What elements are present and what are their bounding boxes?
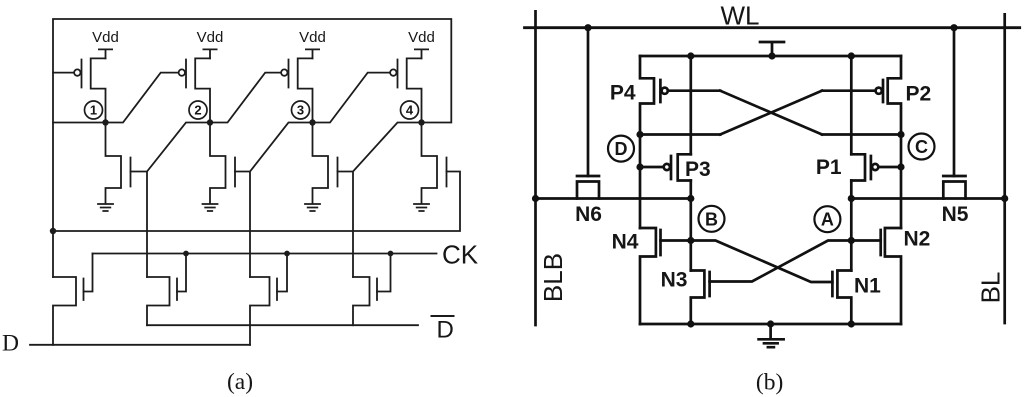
transistor NMOS stage 1 <box>106 123 131 204</box>
net BLB wire <box>534 11 537 325</box>
node C wire <box>822 133 901 136</box>
svg-text:N2: N2 <box>904 228 931 251</box>
junction dot gnd stub <box>767 320 774 327</box>
wire inner-left vertical (Vdd to P3 source) <box>689 56 692 154</box>
wire node 2 to gate of PMOS3 (diagonal) <box>210 73 281 123</box>
svg-text:N6: N6 <box>575 203 602 226</box>
svg-text:P1: P1 <box>816 156 842 179</box>
junction dot BL/access <box>1001 195 1008 202</box>
node 1 junction dot <box>102 119 108 125</box>
transistor pass NMOS T1 (clocked) <box>53 277 84 345</box>
svg-text:N5: N5 <box>942 203 969 226</box>
transistor N3 <box>691 271 710 325</box>
node 2 circled label <box>189 101 207 119</box>
node 4 circled label <box>401 101 419 119</box>
transistor pass NMOS T3 (clocked) <box>250 277 277 345</box>
svg-text:WL: WL <box>721 1 760 31</box>
junction dot access/inner-right <box>848 195 855 202</box>
junction dot Vdd stub <box>768 52 775 59</box>
svg-text:D: D <box>437 317 454 344</box>
net CK wire <box>93 253 437 255</box>
wire gate of N4 to node B <box>661 239 691 242</box>
junction dot Vdd/inner-left <box>687 52 694 59</box>
node D circled label <box>608 136 634 162</box>
wire cross: node B to gate of N1 <box>691 241 833 283</box>
power Vdd symbol stage 2 <box>203 49 216 58</box>
wire outer-left vertical (P3 gate tap to N4) <box>639 167 642 228</box>
wire node 3 to gate of PMOS4 (diagonal) <box>313 73 391 123</box>
wire cross: node A to gate of N3 <box>710 241 852 282</box>
transistor NMOS stage 4 <box>422 123 447 204</box>
transistor NMOS stage 3 <box>313 123 338 204</box>
transistor PMOS stage 3 <box>289 58 313 122</box>
wire gate of NMOS2 to node 3 (diagonal) and down to pass transistor 3 <box>235 123 313 278</box>
junction dot gnd/inner-left <box>687 320 694 327</box>
ground stage 1 <box>98 204 113 211</box>
transistor NMOS stage 2 <box>210 123 235 204</box>
wire gate of NMOS4 down to feedback rail <box>53 172 460 232</box>
CK junction dot T4 <box>388 251 394 257</box>
wire gate of T4 to CK <box>377 254 391 292</box>
node D junction dot <box>636 131 643 138</box>
wire cross: node D to P2 gate <box>720 91 822 135</box>
wire BL access line <box>851 197 1004 200</box>
wire node 1 to gate of PMOS2 (diagonal) <box>106 73 179 123</box>
net D wire <box>30 344 250 346</box>
node B junction dot <box>687 237 694 244</box>
power rail Vdd of cell <box>640 55 901 58</box>
transistor PMOS stage 1 <box>82 58 106 122</box>
feedback rail junction dot <box>50 228 56 234</box>
svg-text:C: C <box>915 137 928 157</box>
transistor pass NMOS T4 (clocked) <box>353 277 377 325</box>
transistor PMOS stage 2 <box>186 58 210 122</box>
node 4 junction dot <box>418 119 424 125</box>
junction dot Vdd/inner-right <box>848 52 855 59</box>
transistor P3 <box>640 154 691 180</box>
ground stage 2 <box>203 204 218 211</box>
svg-text:Vdd: Vdd <box>299 29 326 46</box>
wire inner-right vertical (Vdd to P1 source) <box>850 56 853 154</box>
svg-text:Vdd: Vdd <box>408 29 435 46</box>
svg-text:P2: P2 <box>906 83 932 106</box>
wire node C down to P1 gate tap <box>900 135 903 168</box>
junction dot WL/N5 <box>950 24 957 31</box>
transistor PMOS stage 4 <box>398 58 422 122</box>
transistor N5 (access) <box>943 176 965 199</box>
ground symbol <box>759 324 784 347</box>
ground stage 3 <box>305 204 320 211</box>
junction dot BLB/access <box>532 195 539 202</box>
svg-text:N1: N1 <box>854 275 881 298</box>
svg-text:P3: P3 <box>685 158 711 181</box>
svg-text:BL: BL <box>976 272 1006 304</box>
power Vdd symbol stage 3 <box>306 49 319 58</box>
transistor N1 <box>832 271 851 325</box>
wire gate of P2 (to cross) <box>822 89 876 92</box>
svg-text:N4: N4 <box>612 231 639 254</box>
junction dot access/inner-left <box>687 195 694 202</box>
wire WL to gate of N5 <box>953 28 956 176</box>
node C junction dot <box>897 131 904 138</box>
wire gate of NMOS3 to node 4 (diagonal) and down to pass transistor 4 <box>338 123 422 278</box>
power Vdd symbol <box>760 42 784 56</box>
wire WL to gate of N6 <box>587 28 590 176</box>
wire gate of T2 to CK <box>177 254 186 292</box>
svg-text:1: 1 <box>90 103 97 118</box>
svg-text:N3: N3 <box>661 269 688 292</box>
wire gate of T1 to CK <box>84 254 93 292</box>
svg-text:4: 4 <box>406 103 414 118</box>
svg-text:D: D <box>2 331 19 357</box>
net WL wire <box>525 26 1020 29</box>
svg-text:(b): (b) <box>756 369 783 395</box>
svg-text:3: 3 <box>297 103 304 118</box>
junction dot P1 gate tap <box>897 163 904 170</box>
junction dot WL/N6 <box>584 24 591 31</box>
node D wire <box>640 133 720 136</box>
wire inner-left vertical (P3 drain to N3 drain) <box>689 181 692 271</box>
wire gate of PMOS1 to left border <box>53 72 74 74</box>
net BL wire <box>1003 14 1006 323</box>
node A junction dot <box>848 237 855 244</box>
transistor N4 <box>640 228 661 324</box>
node B circled label <box>699 206 725 232</box>
svg-text:P4: P4 <box>610 82 636 105</box>
node C circled label <box>909 134 935 160</box>
wire node D down to P3 gate tap <box>639 135 642 168</box>
transistor pass NMOS T2 (clocked) <box>147 277 177 325</box>
svg-text:2: 2 <box>194 103 201 118</box>
wire gate of T3 to CK <box>277 254 287 292</box>
transistor N2 <box>881 228 901 324</box>
node 1 circled label <box>85 101 103 119</box>
junction dot P3 gate tap <box>636 163 643 170</box>
wire gate of N2 to node A <box>851 239 880 242</box>
svg-text:A: A <box>821 210 834 230</box>
svg-text:Vdd: Vdd <box>197 29 224 46</box>
svg-text:D: D <box>615 139 628 159</box>
wire outer-right vertical (P1 gate tap to N2) <box>900 167 903 228</box>
transistor N6 (access) <box>577 176 599 199</box>
ground rail of cell <box>640 323 901 326</box>
wire cross: P4 gate to node C <box>720 91 822 135</box>
CK junction dot T3 <box>284 251 290 257</box>
CK junction dot T2 <box>183 251 189 257</box>
node A circled label <box>814 206 840 232</box>
wire gate of P4 (to cross) <box>668 89 720 92</box>
power Vdd symbol stage 4 <box>415 49 428 58</box>
transistor P2 <box>883 56 901 135</box>
svg-text:(a): (a) <box>227 369 253 395</box>
wire node 1 to left border <box>53 122 106 124</box>
net Dbar wire <box>147 324 418 326</box>
transistor P1 <box>851 154 901 180</box>
svg-text:B: B <box>705 209 718 229</box>
junction dot gnd/inner-right <box>848 320 855 327</box>
svg-text:CK: CK <box>442 240 479 270</box>
wire BLB access line <box>536 197 691 200</box>
wire inner-right vertical (P1 drain to N1 drain) <box>850 181 853 271</box>
svg-text:BLB: BLB <box>538 253 568 302</box>
wire feedback loop (left border, top border, right drop to node 4) <box>53 19 451 277</box>
svg-text:Vdd: Vdd <box>92 29 119 46</box>
node 2 junction dot <box>207 119 213 125</box>
power Vdd symbol stage 1 <box>99 49 112 58</box>
ground stage 4 <box>414 204 429 211</box>
transistor P4 <box>640 56 660 135</box>
node 3 junction dot <box>309 119 315 125</box>
wire gate of NMOS1 to node 2 (diagonal) and down to pass transistor 2 <box>131 123 211 278</box>
node 3 circled label <box>292 101 310 119</box>
net Dbar label <box>432 315 454 317</box>
